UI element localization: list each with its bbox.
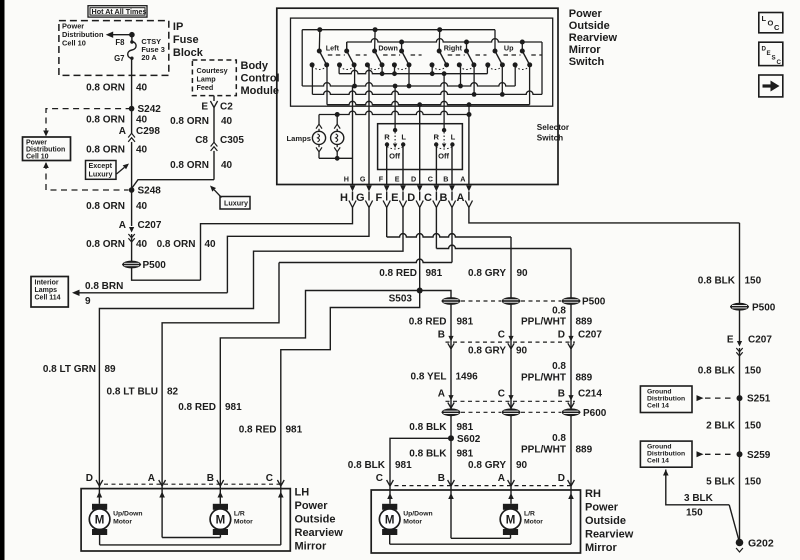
svg-text:0.8 ORN: 0.8 ORN bbox=[157, 239, 196, 250]
svg-text:Control: Control bbox=[241, 73, 280, 85]
svg-text:0.8: 0.8 bbox=[552, 361, 566, 372]
power outside rearview mirror switch box bbox=[277, 8, 558, 184]
svg-text:Mirror: Mirror bbox=[295, 541, 328, 553]
label 0.8 RED 981 (LH C) bbox=[239, 425, 303, 436]
svg-text:9: 9 bbox=[85, 296, 91, 307]
wire D fan (RED) to S503 bbox=[419, 208, 421, 291]
svg-text:C207: C207 bbox=[578, 329, 602, 340]
node fuse feed bbox=[129, 32, 135, 38]
svg-text:D: D bbox=[86, 473, 93, 484]
label 0.8 RED 981 (X1) bbox=[409, 317, 474, 328]
svg-text:3 BLK: 3 BLK bbox=[684, 493, 714, 504]
LH l/r motor bbox=[210, 504, 253, 535]
connector C207 pin E right bbox=[727, 335, 773, 357]
svg-text:Rearview: Rearview bbox=[585, 529, 634, 541]
connector forks below switch bbox=[349, 192, 473, 208]
box Luxury bbox=[220, 197, 250, 210]
svg-text:C8: C8 bbox=[195, 135, 208, 146]
svg-text:S259: S259 bbox=[747, 450, 771, 461]
RH pin C wire arrow bbox=[387, 485, 393, 504]
svg-text:C: C bbox=[498, 329, 505, 340]
svg-text:LH: LH bbox=[295, 487, 310, 499]
svg-text:150: 150 bbox=[686, 508, 703, 519]
svg-text:Mirror: Mirror bbox=[569, 44, 602, 56]
RH pin D wire bbox=[390, 485, 574, 544]
DESC reference box bbox=[759, 42, 783, 66]
switch inner box bbox=[291, 18, 553, 106]
svg-text:P600: P600 bbox=[583, 408, 607, 419]
svg-text:981: 981 bbox=[426, 268, 443, 279]
label 0.8 LT GRN 89 bbox=[43, 364, 116, 375]
switch bus 4 bbox=[327, 65, 530, 107]
svg-text:889: 889 bbox=[576, 445, 593, 456]
label Down bbox=[378, 43, 398, 52]
dashed arrow box to S259 bbox=[697, 451, 735, 457]
LH up/down motor bbox=[89, 504, 142, 535]
svg-text:40: 40 bbox=[136, 115, 148, 126]
svg-text:Up/Down: Up/Down bbox=[403, 511, 432, 518]
LH pin C wire bbox=[100, 484, 284, 545]
svg-text:Cell 14: Cell 14 bbox=[647, 457, 669, 464]
switch pole 3 bbox=[365, 27, 400, 69]
label 0.8 ORN 40 (C207-P500) bbox=[86, 239, 147, 250]
label 5 BLK 150 bbox=[706, 476, 762, 487]
svg-text:C: C bbox=[424, 192, 432, 204]
svg-text:S503: S503 bbox=[389, 294, 413, 305]
RH motor1 bottom stem bbox=[389, 535, 391, 544]
switch bus 1 bbox=[339, 65, 487, 76]
label Power Outside Rearview Mirror Switch bbox=[569, 8, 618, 68]
lamp 1 bbox=[312, 115, 325, 159]
svg-text:C2: C2 bbox=[220, 102, 233, 113]
splice S242 bbox=[129, 104, 161, 115]
wire BCM to fork bbox=[213, 96, 215, 101]
svg-text:150: 150 bbox=[745, 420, 762, 431]
svg-text:Left: Left bbox=[326, 43, 340, 52]
svg-text:Cell 10: Cell 10 bbox=[62, 39, 86, 48]
svg-text:Motor: Motor bbox=[403, 519, 422, 526]
svg-text:150: 150 bbox=[745, 365, 762, 376]
svg-text:Ground: Ground bbox=[647, 388, 672, 395]
connector letters H G F E D C B A bbox=[340, 192, 464, 204]
svg-text:B: B bbox=[438, 473, 445, 484]
switch pole 5 bbox=[430, 27, 465, 69]
connector C305 pin C8 bbox=[195, 135, 244, 151]
selector switch box bbox=[378, 124, 463, 170]
svg-text:H: H bbox=[340, 192, 348, 204]
label IP Fuse Block bbox=[173, 21, 204, 59]
wire C fan (PPL/WHT) bbox=[436, 208, 571, 298]
svg-text:Power: Power bbox=[295, 500, 329, 512]
svg-text:Power: Power bbox=[585, 502, 619, 514]
svg-text:981: 981 bbox=[286, 425, 303, 436]
svg-text:B: B bbox=[438, 329, 445, 340]
svg-text:E: E bbox=[201, 102, 208, 113]
svg-text:0.8 RED: 0.8 RED bbox=[178, 402, 216, 413]
RH pin B wire bbox=[448, 485, 510, 538]
svg-text:0.8 RED: 0.8 RED bbox=[239, 425, 277, 436]
svg-text:A: A bbox=[148, 473, 155, 484]
splice S602 bbox=[448, 434, 481, 445]
svg-text:E: E bbox=[395, 174, 400, 183]
svg-text:Motor: Motor bbox=[234, 519, 253, 526]
switch pin letters small bbox=[344, 174, 466, 183]
svg-text:P500: P500 bbox=[752, 302, 776, 313]
label 0.8 ORN 40 (C298-S248) bbox=[86, 145, 147, 156]
svg-text:E: E bbox=[767, 50, 771, 57]
dashed arrow box to S251 bbox=[697, 395, 735, 401]
LH mirror connector row bbox=[86, 473, 284, 486]
svg-text:PPL/WHT: PPL/WHT bbox=[521, 445, 566, 456]
wire A fan to right column bbox=[469, 208, 740, 223]
svg-text:C298: C298 bbox=[136, 126, 160, 137]
box Ground Distribution Cell 14 (S251) bbox=[640, 386, 692, 413]
RH motor2 bottom stem bbox=[510, 535, 512, 538]
svg-text:S: S bbox=[772, 55, 776, 62]
svg-text:Hot At All Times: Hot At All Times bbox=[92, 7, 147, 16]
svg-text:Lamps: Lamps bbox=[287, 134, 311, 143]
svg-text:L/R: L/R bbox=[524, 511, 535, 518]
svg-text:C214: C214 bbox=[578, 388, 602, 399]
label F8 bbox=[115, 38, 125, 47]
svg-text:Outside: Outside bbox=[569, 20, 610, 32]
splice S259 bbox=[737, 450, 771, 461]
svg-text:5 BLK: 5 BLK bbox=[706, 476, 736, 487]
wire pin C inside bbox=[435, 146, 437, 185]
RH l/r motor bbox=[500, 504, 543, 535]
svg-text:981: 981 bbox=[225, 402, 242, 413]
svg-text:Power: Power bbox=[26, 140, 47, 147]
svg-text:40: 40 bbox=[205, 239, 217, 250]
RH pin A wire arrow bbox=[508, 485, 514, 504]
svg-text:0.8: 0.8 bbox=[552, 433, 566, 444]
label 0.8 ORN 40 (branch) bbox=[157, 239, 216, 250]
label 0.8 BLK 150 (mid) bbox=[698, 365, 762, 376]
RH mirror connector row bbox=[376, 473, 575, 486]
wire C207 to S251 bbox=[739, 348, 741, 398]
dashed link cell10 box to S248 bbox=[43, 162, 128, 190]
svg-text:0.8 GRY: 0.8 GRY bbox=[468, 346, 506, 357]
wire X3 (PPL/WHT) bbox=[570, 304, 572, 480]
svg-text:2 BLK: 2 BLK bbox=[706, 420, 736, 431]
wire H fan (ORN to switch) bbox=[201, 208, 353, 281]
splice S503 bbox=[389, 288, 423, 305]
svg-text:981: 981 bbox=[457, 317, 474, 328]
svg-text:M: M bbox=[95, 514, 105, 526]
lamp 2 bbox=[331, 115, 344, 159]
wire S503 to LH-C staircase bbox=[281, 291, 420, 481]
svg-text:Power: Power bbox=[569, 8, 603, 20]
label 0.8 ORN 40 (C2-C305) bbox=[170, 116, 232, 127]
wire S503 right branch bbox=[420, 291, 451, 298]
selector cell 2 (R-Off-L) bbox=[433, 128, 455, 161]
svg-text:Outside: Outside bbox=[295, 514, 336, 526]
svg-text:A: A bbox=[438, 388, 445, 399]
svg-text:Rearview: Rearview bbox=[569, 32, 618, 44]
lamp rail bbox=[319, 105, 472, 117]
arrow Except Luxury to wire bbox=[117, 164, 130, 175]
svg-text:C: C bbox=[774, 23, 780, 32]
wire pin B inside bbox=[451, 146, 453, 185]
svg-text:40: 40 bbox=[136, 83, 148, 94]
svg-text:D: D bbox=[558, 473, 565, 484]
LH motor2 bottom stem bbox=[219, 535, 221, 538]
svg-text:0.8 BLK: 0.8 BLK bbox=[698, 365, 736, 376]
label Selector Switch bbox=[537, 123, 570, 143]
svg-text:0.8 RED: 0.8 RED bbox=[379, 268, 417, 279]
wire pin G inside bbox=[368, 65, 370, 185]
svg-text:R: R bbox=[384, 133, 390, 142]
box Ground Distribution Cell 14 (S259) bbox=[640, 441, 692, 467]
svg-text:Distribution: Distribution bbox=[26, 147, 65, 154]
svg-text:S602: S602 bbox=[457, 434, 481, 445]
switch pole 8 bbox=[513, 40, 543, 70]
connector C2 pin E bbox=[201, 101, 233, 113]
wire C207 to P500 bbox=[131, 234, 133, 261]
svg-text:0.8 LT GRN: 0.8 LT GRN bbox=[43, 364, 96, 375]
svg-text:Selector: Selector bbox=[537, 123, 570, 132]
LH pin D wire arrow bbox=[97, 484, 103, 504]
text Power Distribution Cell 10 (fuse feed) bbox=[62, 22, 104, 48]
svg-text:Cell 10: Cell 10 bbox=[26, 154, 49, 161]
svg-text:Up: Up bbox=[504, 43, 514, 52]
switch bus 2 bbox=[302, 65, 515, 89]
svg-text:F: F bbox=[375, 192, 382, 204]
LH mirror box bbox=[81, 489, 290, 551]
LH pin A wire bbox=[159, 484, 220, 538]
selector cell 1 (R-Off-L) bbox=[384, 128, 406, 161]
arrow to Power Distribution Cell 10 bbox=[106, 32, 132, 38]
svg-text:40: 40 bbox=[136, 145, 148, 156]
svg-text:B: B bbox=[440, 192, 448, 204]
label 2 BLK 150 bbox=[706, 420, 762, 431]
RH up/down motor bbox=[379, 504, 432, 535]
wire G fan (BRN) bbox=[227, 208, 369, 293]
switch pole 4 bbox=[392, 40, 422, 70]
svg-text:D: D bbox=[407, 192, 415, 204]
svg-text:D: D bbox=[558, 329, 565, 340]
svg-text:0.8 BLK: 0.8 BLK bbox=[348, 460, 386, 471]
svg-text:0.8 BRN: 0.8 BRN bbox=[85, 281, 123, 292]
svg-text:C305: C305 bbox=[220, 135, 244, 146]
ground G202 bbox=[736, 537, 774, 552]
svg-text:Switch: Switch bbox=[537, 134, 563, 143]
label 0.8 RED 981 (D wire) bbox=[379, 268, 442, 279]
svg-text:90: 90 bbox=[516, 346, 528, 357]
rail common (pole 2-4-6-8) bbox=[347, 39, 542, 95]
svg-text:0.8 ORN: 0.8 ORN bbox=[86, 145, 125, 156]
svg-text:A: A bbox=[119, 126, 126, 137]
svg-text:0.8 RED: 0.8 RED bbox=[409, 317, 447, 328]
svg-text:E: E bbox=[391, 192, 398, 204]
label 3 BLK 150 bbox=[684, 493, 714, 519]
label 0.8 GRY 90 (X2 low) bbox=[468, 460, 528, 471]
svg-text:Mirror: Mirror bbox=[585, 542, 618, 554]
label 0.8 LT BLU 82 bbox=[107, 387, 179, 398]
wire S503 to LH-B staircase bbox=[220, 291, 419, 481]
svg-text:C: C bbox=[498, 388, 505, 399]
svg-text:PPL/WHT: PPL/WHT bbox=[521, 317, 566, 328]
svg-text:Module: Module bbox=[241, 85, 280, 97]
svg-text:0.8 ORN: 0.8 ORN bbox=[86, 115, 125, 126]
svg-text:0.8 ORN: 0.8 ORN bbox=[170, 160, 209, 171]
wire X1 (RED/YEL/BLK) bbox=[450, 304, 452, 480]
svg-text:F: F bbox=[379, 174, 384, 183]
svg-text:B: B bbox=[443, 174, 448, 183]
svg-text:889: 889 bbox=[576, 373, 593, 384]
svg-text:G: G bbox=[356, 192, 365, 204]
svg-text:F8: F8 bbox=[115, 38, 125, 47]
arrow Luxury to wire bbox=[210, 186, 222, 198]
svg-text:Luxury: Luxury bbox=[89, 170, 113, 179]
svg-text:G: G bbox=[360, 174, 366, 183]
label 0.8 ORN 40 (S248-C207) bbox=[86, 201, 147, 212]
svg-text:Luxury: Luxury bbox=[224, 198, 248, 207]
wire S259 to G202 bbox=[739, 454, 741, 542]
svg-text:82: 82 bbox=[167, 387, 179, 398]
switch bus 3 bbox=[312, 65, 542, 97]
svg-text:O: O bbox=[768, 19, 774, 28]
wire X2 (GRY) bbox=[510, 304, 512, 480]
svg-text:Motor: Motor bbox=[113, 519, 132, 526]
svg-text:0.8 GRY: 0.8 GRY bbox=[468, 460, 506, 471]
svg-text:H: H bbox=[344, 174, 349, 183]
svg-text:A: A bbox=[460, 174, 465, 183]
svg-text:20 A: 20 A bbox=[141, 53, 157, 62]
svg-text:S251: S251 bbox=[747, 394, 771, 405]
wire S602 to RH-C bbox=[390, 438, 451, 480]
wire B fan (LT BLU) bbox=[162, 208, 452, 481]
label RH Power Outside Rearview Mirror bbox=[585, 488, 634, 554]
svg-text:M: M bbox=[506, 514, 516, 526]
svg-text:Feed: Feed bbox=[197, 83, 214, 92]
svg-text:89: 89 bbox=[105, 364, 117, 375]
wire selector common 1 bbox=[394, 86, 396, 128]
svg-text:L: L bbox=[401, 133, 406, 142]
label 0.8 BLK 981 (X1 below S602) bbox=[409, 449, 473, 460]
svg-text:Cell 14: Cell 14 bbox=[647, 402, 669, 409]
svg-text:0.8 LT BLU: 0.8 LT BLU bbox=[107, 387, 158, 398]
svg-text:981: 981 bbox=[457, 422, 474, 433]
switch pole 1 bbox=[310, 27, 345, 69]
wire 3 BLK to G202 bbox=[663, 470, 740, 543]
label CTSY Fuse 3 20 A bbox=[141, 37, 164, 62]
svg-text:Fuse: Fuse bbox=[173, 34, 199, 46]
svg-text:Motor: Motor bbox=[524, 519, 543, 526]
box Power Distribution Cell 10 bbox=[23, 137, 71, 161]
label 0.8 RED 981 (LH B) bbox=[178, 402, 242, 413]
RH mirror box bbox=[371, 490, 580, 553]
label box Hot At All Times bbox=[88, 6, 147, 17]
svg-text:G7: G7 bbox=[114, 54, 124, 63]
svg-text:C: C bbox=[428, 174, 433, 183]
svg-text:C: C bbox=[777, 59, 782, 66]
connector C207 pin A (left) bbox=[119, 220, 162, 242]
label 0.8 PPL/WHT 889 (X3 mid) bbox=[521, 361, 593, 384]
page left black border bar bbox=[0, 0, 5, 560]
label 0.8 ORN 40 (C305 down) bbox=[170, 160, 232, 171]
svg-text:Switch: Switch bbox=[569, 56, 605, 68]
svg-text:C: C bbox=[266, 473, 273, 484]
label 0.8 YEL 1496 (X1) bbox=[411, 372, 479, 383]
wire pin D inside bbox=[419, 105, 421, 185]
label 0.8 ORN 40 (fuse-S242) bbox=[86, 83, 147, 94]
svg-text:L: L bbox=[762, 14, 767, 23]
lamp bottom rail bbox=[319, 156, 353, 161]
connector C207 middle row bbox=[438, 329, 603, 349]
svg-text:Right: Right bbox=[444, 43, 463, 52]
splice S251 bbox=[737, 394, 771, 405]
svg-text:0.8 ORN: 0.8 ORN bbox=[170, 116, 209, 127]
switch pin exit arrows bbox=[350, 186, 472, 192]
label Body Control Module bbox=[241, 60, 280, 97]
label 0.8 BLK 981 (X1 above S602) bbox=[409, 422, 473, 433]
svg-text:981: 981 bbox=[457, 449, 474, 460]
svg-text:0.8 BLK: 0.8 BLK bbox=[409, 449, 447, 460]
wire S242 to C298 bbox=[131, 109, 133, 134]
svg-text:PPL/WHT: PPL/WHT bbox=[521, 373, 566, 384]
label 0.8 PPL/WHT 889 (X3 low) bbox=[521, 433, 593, 456]
svg-text:A: A bbox=[119, 220, 126, 231]
svg-text:40: 40 bbox=[221, 160, 233, 171]
wire pin A inside bbox=[468, 115, 470, 185]
dashed link S242 to cell10 box bbox=[43, 109, 131, 137]
svg-text:A: A bbox=[498, 473, 505, 484]
svg-text:Interior: Interior bbox=[35, 280, 59, 287]
svg-text:L: L bbox=[451, 133, 456, 142]
svg-text:Lamps: Lamps bbox=[35, 287, 58, 294]
svg-text:889: 889 bbox=[576, 317, 593, 328]
svg-text:C207: C207 bbox=[138, 220, 162, 231]
svg-text:RH: RH bbox=[585, 488, 601, 500]
label G7 bbox=[114, 54, 124, 63]
svg-text:Rearview: Rearview bbox=[295, 527, 344, 539]
svg-text:0.8 YEL: 0.8 YEL bbox=[411, 372, 447, 383]
label Left bbox=[326, 43, 340, 52]
svg-text:0.8 ORN: 0.8 ORN bbox=[86, 239, 125, 250]
wire C298 to S248 bbox=[131, 142, 133, 190]
body control module dashed box bbox=[192, 60, 236, 96]
connector C214 middle row bbox=[438, 388, 603, 408]
svg-text:Cell 114: Cell 114 bbox=[35, 295, 61, 302]
LH pin B wire arrow bbox=[218, 484, 224, 504]
wire S251 to S259 bbox=[739, 398, 741, 454]
label 0.8 GRY 90 (X2 mid) bbox=[468, 346, 528, 357]
wire S248 to C207 bbox=[131, 190, 133, 226]
svg-text:150: 150 bbox=[745, 476, 762, 487]
wire P500 to C207 right bbox=[739, 310, 741, 341]
svg-text:0.8 BLK: 0.8 BLK bbox=[409, 422, 447, 433]
connector P600 ovals bbox=[442, 408, 607, 419]
svg-text:G202: G202 bbox=[748, 537, 774, 549]
svg-text:B: B bbox=[207, 473, 214, 484]
svg-text:Distribution: Distribution bbox=[647, 450, 685, 457]
switch pole 6 bbox=[457, 40, 487, 70]
label Lamps bbox=[287, 134, 311, 143]
svg-text:40: 40 bbox=[136, 239, 148, 250]
svg-text:40: 40 bbox=[136, 201, 148, 212]
connector C298 pin A bbox=[119, 126, 161, 142]
svg-text:L/R: L/R bbox=[234, 511, 245, 518]
svg-text:90: 90 bbox=[516, 460, 528, 471]
label Right bbox=[444, 43, 463, 52]
wire selector common 2 bbox=[443, 74, 445, 129]
wire pin F inside bbox=[386, 146, 388, 185]
svg-text:0.8 GRY: 0.8 GRY bbox=[468, 268, 506, 279]
label 0.8 PPL/WHT 889 (X3 upper) bbox=[521, 306, 593, 328]
LOC reference box bbox=[759, 13, 783, 33]
svg-text:D: D bbox=[411, 174, 416, 183]
